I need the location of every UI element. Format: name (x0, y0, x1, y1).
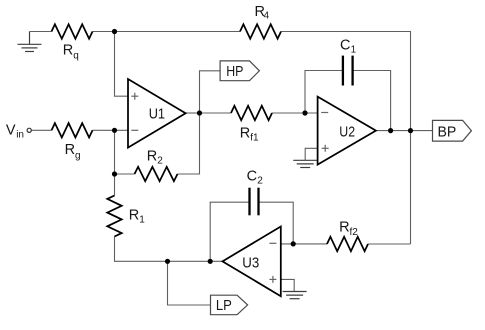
wire: HP branch (200, 71, 221, 113)
svg-text:U3: U3 (242, 255, 259, 271)
svg-text:LP: LP (216, 298, 232, 314)
junction: U1 output / HP node (197, 110, 202, 115)
junction: U3 - input (291, 241, 296, 246)
junction: input node (112, 128, 117, 133)
svg-text:U1: U1 (149, 107, 165, 123)
wire: R1 to bottom net, to U3 output (115, 237, 223, 262)
capacitor C1 (343, 56, 353, 86)
label Rq (63, 42, 79, 61)
op-amp U2 + mark (322, 145, 329, 152)
wire: R2 to input-node vertical (115, 173, 135, 175)
tag LP (211, 295, 248, 315)
label R4 (255, 4, 270, 22)
svg-text:q: q (73, 51, 79, 62)
wire: U2 output to BP tag (376, 130, 433, 132)
wire: Rq to R4 (top net) (93, 31, 241, 33)
label Rg (65, 142, 81, 161)
wire: U1 output to Rf1 (200, 112, 232, 114)
op-amp U2 - mark (321, 112, 328, 114)
label C2 (247, 168, 264, 186)
label Rf1 (240, 125, 259, 143)
wire: C2 left branch (210, 202, 249, 261)
svg-text:2: 2 (157, 156, 163, 167)
label Rf2 (339, 220, 358, 238)
resistor R4 (240, 24, 281, 38)
resistor Rf1 (231, 106, 272, 120)
svg-text:V: V (6, 123, 16, 139)
junction: U2 output / C1 (388, 128, 393, 133)
svg-text:C: C (247, 168, 257, 184)
resistor R2 (135, 167, 178, 181)
junction: C2 tap (208, 259, 213, 264)
op-amp U2 (318, 97, 376, 165)
wire: C1 left branch (305, 71, 343, 114)
wire: Rg to U1 - input (93, 129, 129, 131)
wire: Rf1 to U2 - input (272, 112, 318, 114)
wire: R4 to right corner, down to Rf2 (281, 32, 411, 245)
junction: R2 tap (112, 171, 117, 176)
wire: LP branch (168, 261, 211, 305)
svg-text:2: 2 (257, 176, 263, 187)
resistor Rf2 (327, 237, 368, 251)
op-amp U1 - mark (131, 129, 138, 131)
svg-text:1: 1 (351, 45, 357, 56)
junction: LP tap (165, 259, 170, 264)
svg-text:R: R (147, 148, 157, 164)
label U1 (149, 107, 165, 123)
svg-text:BP: BP (438, 123, 457, 140)
svg-text:HP: HP (226, 64, 243, 80)
wire: Vin terminal to Rg (31, 129, 51, 131)
wire: U1 output stub (186, 112, 200, 114)
wire: top junction down to U1 + input (115, 32, 129, 97)
wire: C1 right branch (353, 71, 391, 131)
wire: U2 + input to ground (305, 148, 317, 160)
wire: input node down to R1 (114, 130, 116, 195)
ground (top-left, Rq) (18, 32, 42, 52)
resistor R1 (107, 196, 121, 237)
junction: U2 - input (302, 110, 307, 115)
svg-text:C: C (340, 37, 350, 53)
resistor Rq (52, 24, 93, 38)
label C1 (340, 37, 357, 55)
svg-text:R: R (65, 142, 75, 158)
tag HP (220, 61, 259, 81)
label U2 (339, 125, 355, 141)
svg-text:U2: U2 (339, 125, 355, 141)
op-amp U3 (223, 227, 281, 297)
wire: R2 branch (output node down, left to R2) (178, 113, 200, 174)
svg-text:4: 4 (264, 11, 270, 22)
wire: U3 + input to ground (281, 279, 294, 291)
junction: BP / R4 / Rf2 node (408, 128, 413, 133)
op-amp U1 (128, 79, 186, 148)
svg-text:R: R (129, 207, 139, 223)
svg-text:f2: f2 (350, 227, 359, 238)
svg-text:in: in (16, 130, 24, 141)
wire: Rf2 to right vertical (368, 243, 411, 245)
svg-text:f1: f1 (250, 133, 259, 144)
ground (U2 + input) (293, 160, 317, 167)
op-amp U3 + mark (269, 276, 276, 283)
svg-text:R: R (339, 220, 349, 236)
op-amp U1 + mark (131, 93, 138, 100)
capacitor C2 (250, 188, 259, 216)
svg-text:R: R (63, 42, 73, 58)
wire: U3 - input to Rf2 (281, 243, 327, 245)
ground (U3 + input) (283, 292, 307, 299)
label U3 (242, 255, 259, 271)
wire: ground to Rq (30, 31, 52, 33)
junction: top net / Rq-R4 (112, 29, 117, 34)
label R2 (147, 148, 163, 166)
svg-text:R: R (240, 125, 250, 141)
wire: C2 right branch (259, 202, 294, 244)
label R1 (129, 207, 145, 225)
op-amp U3 - mark (269, 242, 276, 244)
input terminal Vin (open circle) (27, 128, 31, 132)
label Vin (6, 123, 24, 141)
svg-text:g: g (75, 150, 81, 161)
tag BP (433, 120, 472, 141)
svg-text:1: 1 (139, 215, 145, 226)
resistor Rg (52, 123, 93, 137)
